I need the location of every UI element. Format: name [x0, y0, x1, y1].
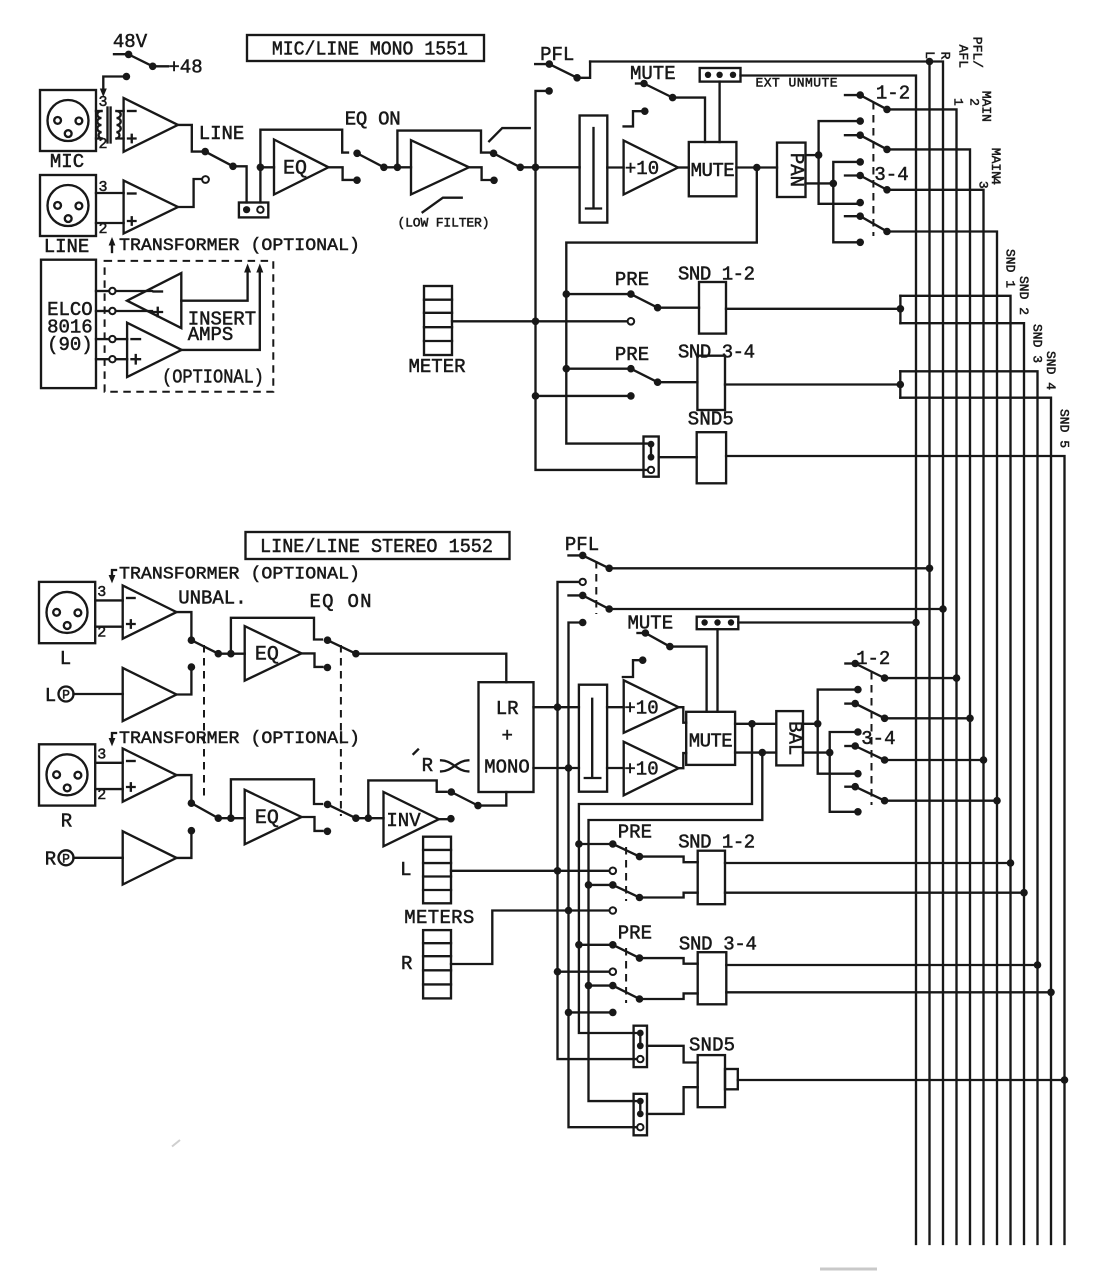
- wire gang dashed (EQ ON stereo): [340, 645, 342, 816]
- node post-fade junction SND1-2: [563, 290, 571, 298]
- svg-text:R: R: [61, 811, 72, 833]
- node contact feed L upper: [856, 117, 864, 125]
- op-amp +10 R (stereo): [624, 742, 679, 796]
- switch PFL (mono): [535, 60, 590, 81]
- node LINE switch lower throw (open): [202, 176, 209, 183]
- wire MAIN 3 bus (vertical 6): [887, 190, 984, 1244]
- wire insert send output to return riser 1: [181, 264, 251, 301]
- svg-text:EXT UNMUTE: EXT UNMUTE: [756, 76, 838, 91]
- connector R XLR: [39, 744, 95, 805]
- node R phono input: [45, 849, 123, 871]
- switch MUTE (mono): [636, 80, 705, 142]
- component insert amps dashed box: [105, 261, 274, 392]
- wire L preamp out to select switch: [177, 612, 192, 640]
- node stereo EXT UNMUTE junction on bus 1: [912, 619, 920, 627]
- switch 48V phantom: [114, 51, 168, 71]
- wire +10 L out to MUTE block: [679, 707, 687, 723]
- node stereo PFL L junction on L bus: [926, 565, 934, 573]
- op-amp insert return (right-pointing): [127, 323, 182, 377]
- node SND3-4 R post junction: [585, 982, 593, 990]
- node stereo PFL R junction on R bus: [939, 605, 947, 613]
- node L phono input: [45, 685, 123, 707]
- switch EQ ON (mono): [353, 150, 411, 172]
- component meter (mono): [424, 286, 452, 355]
- svg-text:MIC/LINE MONO 1551: MIC/LINE MONO 1551: [272, 39, 468, 61]
- svg-text:48V: 48V: [113, 31, 148, 53]
- node L select lower throw: [188, 663, 196, 671]
- wire R XLR pins to preamp: [95, 763, 123, 789]
- svg-text:R: R: [401, 953, 412, 975]
- wire MUTE R out to BAL: [735, 751, 776, 753]
- wire PFL/AFL L bus (vertical 2): [590, 62, 929, 1245]
- wire insert return riser / EQ input rail: [260, 130, 348, 203]
- node PFL L throw from L rail (open): [580, 579, 586, 585]
- svg-text:PRE: PRE: [618, 822, 652, 844]
- svg-text:+10: +10: [625, 158, 659, 180]
- node contact feed R lower: [856, 239, 864, 247]
- wire SND3-4 L pre throw feed: [558, 971, 613, 973]
- wire R EQ bypass top: [231, 779, 322, 818]
- node L EQ out throw contact: [324, 664, 332, 672]
- wire SND3-4 L output to bus: [726, 964, 1037, 966]
- wire SND3-4 R output to bus: [726, 991, 1051, 993]
- node PRE2 lower throw contact: [627, 392, 635, 400]
- wire R EQ output to lower throw: [302, 817, 323, 831]
- switch SND3-4 R pre/post: [589, 982, 698, 1003]
- node stereo SND1 junction: [1007, 859, 1015, 867]
- svg-text:TRANSFORMER (OPTIONAL): TRANSFORMER (OPTIONAL): [119, 236, 360, 256]
- wire meter tap to pre-fade rail and PRE1 throw: [452, 320, 631, 322]
- op-amp R preamp: [123, 749, 177, 802]
- svg-text:SND5: SND5: [688, 409, 734, 431]
- node faint scan mark bottom: [820, 1268, 877, 1271]
- wire R pre-fade rail: [569, 623, 637, 1128]
- component SND 1-2 pot (stereo): [698, 851, 725, 905]
- node stereo contact feed L upper: [854, 686, 862, 694]
- svg-text:3-4: 3-4: [861, 728, 895, 750]
- node R meter junction on R rail: [565, 907, 573, 915]
- switch MAIN2 assign (mono): [845, 131, 891, 153]
- node stereo SND2 junction: [1020, 889, 1028, 897]
- node R direct/INV junction: [365, 814, 373, 822]
- component LR + MONO matrix: [479, 682, 534, 792]
- svg-text:TRANSFORMER (OPTIONAL): TRANSFORMER (OPTIONAL): [119, 565, 360, 585]
- svg-text:SND 5: SND 5: [1057, 409, 1072, 448]
- node SND3-4 L pre junction: [554, 968, 562, 976]
- node BAL R junction: [826, 749, 834, 757]
- component SND5 pot (mono): [697, 432, 726, 483]
- wire fader out to +10 amp: [607, 166, 623, 168]
- svg-text:(LOW FILTER): (LOW FILTER): [398, 216, 490, 231]
- component meter L (stereo): [423, 837, 451, 904]
- component BAL block: [776, 711, 805, 765]
- wire gang dashed (SND1-2 stereo): [625, 847, 627, 901]
- node R EQ input junction: [227, 814, 235, 822]
- svg-text:LINE: LINE: [44, 236, 90, 258]
- connector SND5 jumper L (stereo): [634, 1026, 647, 1067]
- switch R EQ ON: [324, 801, 384, 822]
- node low-filter input junction: [394, 164, 402, 172]
- component meter R (stereo): [423, 930, 451, 998]
- node R EQ out throw contact: [324, 828, 332, 836]
- wire +10 R out to MUTE block: [679, 753, 687, 768]
- svg-text:PFL: PFL: [540, 44, 574, 66]
- wire SND 4 bus (vertical 11): [900, 398, 1051, 1244]
- wire SND3-4 split riser: [899, 371, 901, 397]
- svg-text:P: P: [62, 851, 70, 866]
- op-amp insert send (left-pointing): [127, 273, 181, 328]
- title box MIC/LINE MONO 1551: [247, 35, 484, 61]
- wire EXT UNMUTE bus (vertical 1): [741, 76, 917, 1245]
- svg-text:EQ: EQ: [283, 158, 307, 181]
- wire R preamp out to select switch: [177, 775, 192, 803]
- node stereo 3-4 switch junction on MAIN3: [980, 756, 988, 764]
- wire R meter tap to R rail and PRE throw: [451, 911, 613, 965]
- node R select lower throw: [188, 827, 196, 835]
- switch LINE select: [201, 148, 246, 203]
- node EQ input junction: [257, 164, 265, 172]
- wire post-fade rail (mono): [566, 168, 757, 444]
- node low-filter out throw contact: [490, 177, 498, 185]
- svg-text:MUTE: MUTE: [630, 63, 676, 85]
- switch R input select: [188, 799, 245, 822]
- node transformer arrow (mono): [111, 241, 113, 252]
- wire SND5 jumper to pot: [659, 456, 697, 458]
- wire low-filter bypass top: [397, 131, 489, 168]
- switch L input select: [188, 636, 245, 657]
- node SND1-2 L post junction: [575, 840, 583, 848]
- wire LR out L to fader: [534, 706, 579, 708]
- wire gang dashed (mono assign switches): [872, 102, 874, 236]
- title box LINE/LINE STEREO 1552: [246, 532, 510, 559]
- switch SND3-4 L pre/post: [579, 941, 698, 964]
- wire SND 3 bus (vertical 10): [900, 371, 1037, 1244]
- switch L EQ ON: [324, 636, 360, 657]
- wire SND1-2 output: [726, 308, 900, 310]
- svg-text:UNBAL.: UNBAL.: [178, 588, 246, 610]
- svg-text:L: L: [400, 859, 411, 881]
- wire L EQ output to lower throw: [302, 653, 323, 667]
- node PAN L junction: [815, 151, 823, 159]
- svg-text:MAIN: MAIN: [988, 148, 1003, 179]
- wire L meter tap to L rail and PRE throw: [451, 870, 613, 872]
- svg-text:P: P: [62, 688, 70, 703]
- node EQ out throw contact: [353, 176, 361, 184]
- svg-text:L: L: [45, 685, 56, 707]
- switch MAIN2 assign (stereo): [845, 700, 970, 722]
- op-amp U2 line preamp: [124, 181, 178, 234]
- switch MAIN3 assign (stereo): [845, 742, 983, 764]
- svg-text:SND 3: SND 3: [1030, 324, 1045, 363]
- svg-text:MAIN: MAIN: [979, 91, 994, 122]
- node SND1-2 L PRE throw contact: [610, 868, 617, 875]
- wire gang dashed (SND3-4 stereo): [625, 948, 627, 1003]
- svg-text:INV: INV: [386, 810, 421, 832]
- wire BAL R output: [803, 751, 830, 753]
- node SND1-2 split junction: [897, 305, 905, 313]
- wire phantom feed to MIC input: [100, 73, 130, 97]
- op-amp R phono amp: [123, 831, 177, 884]
- node SND3-4 R pre junction: [565, 1009, 573, 1017]
- op-amp low filter: [411, 140, 469, 194]
- node stereo 3-4 switch junction on MAIN4: [993, 797, 1001, 805]
- switch SND1-2 R pre/post: [589, 881, 698, 901]
- component MUTE block (mono): [689, 142, 737, 196]
- svg-text:AFL: AFL: [956, 45, 971, 68]
- component fader (stereo): [579, 685, 607, 792]
- svg-text:EQ ON: EQ ON: [310, 591, 372, 613]
- svg-text:SND 1: SND 1: [1003, 249, 1018, 288]
- node SND1-2 R PRE throw contact: [610, 907, 617, 914]
- switch low filter bypass: [490, 150, 580, 172]
- wire fader R out to +10: [607, 767, 624, 769]
- svg-text:PRE: PRE: [615, 344, 649, 366]
- svg-text:SND 2: SND 2: [1016, 276, 1031, 315]
- node SND3-4 L pre throw contact: [610, 968, 617, 975]
- svg-text:METERS: METERS: [404, 907, 474, 929]
- svg-text:MUTE: MUTE: [627, 613, 673, 635]
- svg-text:AMPS: AMPS: [188, 324, 234, 346]
- node faint scratch mark: [172, 1140, 180, 1147]
- wire BAL L feed rail to assign contacts: [818, 690, 858, 774]
- node INV out throw contact: [447, 815, 455, 823]
- svg-text:SND 4: SND 4: [1043, 351, 1058, 390]
- node pre-fade junction at fader input: [532, 164, 540, 172]
- wire SND 1 bus (vertical 8): [900, 296, 1010, 1244]
- node swap gang tick: [414, 750, 419, 755]
- wire LINE XLR pins to U2: [96, 193, 124, 223]
- node stereo 1-2 switch junction on MAIN1: [953, 674, 961, 682]
- node swap crossover symbol: [441, 760, 468, 771]
- node meter junction on pre-fade rail: [532, 318, 540, 326]
- svg-text:1: 1: [951, 98, 966, 106]
- svg-text:R: R: [422, 755, 433, 777]
- node stereo contact feed R lower: [854, 808, 862, 816]
- node stereo 1-2 switch junction on MAIN2: [966, 715, 974, 723]
- wire MUTE L out to BAL: [735, 723, 776, 725]
- svg-text:TRANSFORMER (OPTIONAL): TRANSFORMER (OPTIONAL): [119, 729, 360, 749]
- svg-text:PFL/: PFL/: [970, 37, 985, 68]
- wire EQ input: [260, 166, 274, 168]
- wire (LOW FILTER) pointer: [423, 198, 462, 213]
- component MUTE block (stereo): [686, 712, 735, 765]
- svg-text:+: +: [501, 725, 512, 747]
- svg-text:(OPTIONAL): (OPTIONAL): [162, 367, 264, 389]
- switch MAIN1 assign (stereo): [845, 660, 956, 682]
- connector SND5 jumper R (stereo): [634, 1094, 647, 1136]
- svg-text:SND 3-4: SND 3-4: [678, 342, 755, 364]
- node R post-fade junction: [759, 749, 767, 757]
- wire MAIN 1 bus (vertical 4): [887, 109, 957, 1244]
- node PRE1 lower throw contact: [628, 318, 635, 325]
- wire PAN R feed rail: [833, 162, 860, 242]
- wire U2 output up to LINE switch throw: [178, 179, 201, 207]
- node PFL R throw from R rail: [579, 619, 587, 627]
- node PAN R junction: [830, 180, 838, 188]
- op-amp +10 L (stereo): [624, 680, 679, 733]
- wire MAIN 2 bus (vertical 5): [887, 149, 970, 1244]
- connector insert jumper block J1: [239, 203, 268, 218]
- wire SND1-2 split riser: [899, 296, 901, 323]
- connector MIC XLR: [40, 90, 96, 151]
- switch PFL R (stereo): [569, 592, 944, 613]
- node mono PFL junction on L bus: [926, 58, 934, 66]
- wire L pre-fade rail: [558, 582, 637, 1059]
- wire L post-fade rail: [579, 724, 752, 1033]
- wire U1 output to LINE switch: [178, 125, 202, 152]
- node L EQ input junction: [227, 650, 235, 658]
- wire MUTE out to PAN: [736, 166, 777, 168]
- connector SND5 jumper (mono): [644, 437, 659, 477]
- wire PFL/AFL R bus (vertical 3): [930, 62, 944, 1245]
- switch MAIN4 assign (stereo): [845, 783, 997, 805]
- op-amp EQ (mono): [274, 140, 329, 195]
- wire PAN L feed rail to 1-2/3-4 contacts: [819, 121, 861, 204]
- node ELCO pin 1: [96, 288, 152, 294]
- connector EXT UNMUTE (stereo): [697, 617, 916, 712]
- svg-text:+10: +10: [624, 759, 658, 781]
- switch MAIN4 assign (mono): [845, 212, 891, 235]
- wire MAIN 4 bus (vertical 7): [887, 232, 997, 1245]
- svg-text:MUTE: MUTE: [689, 731, 733, 753]
- switch SND1-2 L pre/post: [579, 840, 698, 862]
- svg-text:MONO: MONO: [484, 757, 530, 779]
- svg-text:METER: METER: [409, 356, 466, 378]
- component SND5 pot (stereo): [698, 1055, 738, 1107]
- node SND3-4 split junction: [897, 381, 905, 389]
- wire R direct path to swap switch: [368, 780, 446, 818]
- svg-text:LINE: LINE: [199, 123, 245, 145]
- node transformer arrow (stereo L): [109, 570, 116, 583]
- node post-fade junction SND3-4: [563, 365, 571, 373]
- switch PFL L (stereo): [569, 552, 930, 572]
- component SND 3-4 pot (mono): [697, 356, 725, 410]
- node L pre-fade junction: [554, 703, 562, 711]
- wire SND 5 bus (vertical 12): [726, 456, 1064, 1244]
- svg-text:PAN: PAN: [785, 153, 807, 187]
- node pre-fade PFL tap contact: [545, 87, 553, 95]
- wire LR out R to fader: [534, 767, 579, 769]
- wire L signal to LR matrix: [356, 654, 506, 683]
- svg-text:L: L: [60, 648, 71, 670]
- node SND3-4 L post junction: [575, 941, 583, 949]
- node SND1-2 R post junction: [585, 881, 593, 889]
- svg-text:R: R: [938, 52, 953, 60]
- connector ELCO 8016 (90): [41, 260, 96, 388]
- op-amp L preamp: [123, 586, 177, 639]
- svg-text:LR: LR: [496, 698, 519, 720]
- wire INV output: [439, 818, 447, 820]
- svg-text:3: 3: [98, 94, 107, 111]
- node ELCO pin 2: [96, 308, 152, 314]
- svg-text:PRE: PRE: [615, 269, 649, 291]
- op-amp U1 mic preamp: [124, 98, 178, 152]
- wire gang dashed (stereo PFL): [595, 561, 597, 614]
- wire R phono amp out to select switch throw: [177, 835, 192, 858]
- wire fader L out to +10: [607, 706, 624, 708]
- wire SND5 output to bus: [738, 1079, 1065, 1081]
- svg-text:L: L: [922, 51, 937, 59]
- svg-text:PRE: PRE: [618, 923, 652, 945]
- svg-text:SND5: SND5: [689, 1035, 735, 1057]
- wire SND1-2 L output to bus: [725, 862, 1011, 864]
- node contact feed L lower: [856, 199, 864, 207]
- node ELCO pin 4: [96, 356, 127, 362]
- svg-text:EQ: EQ: [255, 807, 279, 830]
- op-amp +10 (mono): [624, 141, 678, 195]
- svg-text:R: R: [45, 849, 56, 871]
- component fader (mono): [580, 116, 608, 223]
- wire SND 2 bus (vertical 9): [900, 323, 1024, 1244]
- wire gang dashed (stereo assign switches): [871, 672, 873, 805]
- svg-text:LINE/LINE STEREO 1552: LINE/LINE STEREO 1552: [260, 536, 493, 558]
- switch PRE/POST SND3-4 (mono): [566, 365, 697, 386]
- switch MAIN3 assign (mono): [845, 172, 891, 194]
- node L post-fade junction: [748, 720, 756, 728]
- node stereo contact feed L lower: [854, 770, 862, 778]
- op-amp INV: [384, 792, 439, 846]
- wire L XLR pins to preamp: [95, 600, 123, 626]
- svg-text:(90): (90): [47, 334, 93, 356]
- wire low-filter output to lower throw: [469, 167, 490, 180]
- wire PAN L output: [806, 154, 819, 156]
- node stereo contact feed R upper: [854, 728, 862, 736]
- svg-text:MUTE: MUTE: [691, 160, 735, 182]
- node junction pre-rail PRE2: [532, 392, 540, 400]
- node post-fade junction: [753, 164, 761, 172]
- wire L phono amp out to select switch throw: [177, 671, 192, 695]
- node low-filter switch gang mark: [489, 128, 530, 141]
- wire gang dashed (input select): [203, 645, 205, 800]
- svg-text:+48: +48: [168, 57, 202, 79]
- connector L XLR: [39, 582, 95, 643]
- switch MUTE (stereo): [638, 629, 707, 712]
- node stereo SND3 junction: [1034, 961, 1042, 969]
- switch R swap: [448, 788, 507, 809]
- node mute step symbol (stereo): [623, 656, 647, 677]
- svg-text:EQ: EQ: [255, 644, 279, 667]
- wire PAN R output: [806, 182, 834, 184]
- svg-text:+10: +10: [624, 698, 658, 720]
- wire SND5 L jumper to pot: [647, 1046, 698, 1063]
- node mute step symbol (mono): [624, 107, 649, 126]
- wire insert return output to riser 2: [182, 264, 264, 350]
- switch PRE/POST SND1-2 (mono): [566, 290, 699, 311]
- node stereo SND4 junction: [1047, 989, 1055, 997]
- switch MAIN1 assign (mono): [845, 91, 891, 113]
- op-amp L EQ: [245, 626, 302, 681]
- node SND3-4 R pre throw contact: [609, 1009, 617, 1017]
- op-amp R EQ: [245, 790, 302, 845]
- wire +10 out to MUTE block: [678, 166, 689, 168]
- svg-text:EQ ON: EQ ON: [345, 109, 401, 131]
- svg-text:3-4: 3-4: [874, 164, 908, 186]
- node stereo SND5 junction: [1061, 1076, 1069, 1084]
- node contact feed R upper: [856, 158, 864, 166]
- component PAN block: [777, 143, 807, 197]
- wire BAL L output: [803, 723, 818, 725]
- wire L EQ bypass top: [231, 618, 322, 654]
- wire R post-fade rail: [589, 753, 763, 1102]
- op-amp L phono amp: [123, 668, 177, 721]
- wire pre-fade rail (mono): [536, 91, 648, 470]
- node L meter junction on L rail: [554, 867, 562, 875]
- node BAL L junction: [814, 720, 822, 728]
- svg-text:MIC: MIC: [50, 151, 84, 173]
- svg-text:1-2: 1-2: [876, 83, 910, 105]
- svg-text:3: 3: [97, 584, 106, 601]
- node R pre-fade junction: [565, 764, 573, 772]
